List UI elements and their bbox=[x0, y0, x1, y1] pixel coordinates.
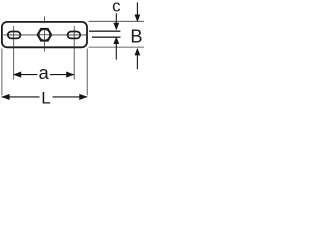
dimension L line bbox=[2, 96, 40, 98]
dimension B up arrow bbox=[135, 48, 141, 56]
background bbox=[0, 0, 144, 105]
dimension c up arrow bbox=[113, 36, 119, 44]
B extension line bottom bbox=[89, 46, 145, 48]
svg-text:c: c bbox=[112, 0, 120, 15]
dimension c lower stem bbox=[115, 44, 117, 60]
left slot bbox=[8, 32, 21, 39]
hex crosshair horizontal bbox=[37, 34, 51, 36]
B extension line top bbox=[89, 20, 145, 22]
horizontal centerline bbox=[4, 34, 88, 36]
dimension a left arrow bbox=[13, 72, 21, 78]
dimension c upper stem bbox=[115, 13, 117, 23]
svg-text:a: a bbox=[38, 62, 49, 83]
dimension B upper stem bbox=[136, 2, 138, 15]
dimension L right arrow bbox=[79, 94, 87, 100]
L extension line right bbox=[86, 48, 88, 95]
svg-text:B: B bbox=[130, 26, 142, 46]
hex crosshair vertical bbox=[43, 29, 45, 40]
dimension a right arrow bbox=[66, 72, 74, 78]
plate outline (top view) bbox=[2, 22, 87, 47]
hex centerline upper bbox=[43, 16, 45, 23]
right slot bbox=[68, 32, 81, 39]
side view bottom line bbox=[92, 36, 121, 38]
dimension B lower stem bbox=[136, 55, 138, 70]
L extension line left bbox=[1, 48, 3, 95]
hex centerline lower bbox=[43, 29, 45, 52]
right slot centerline / extension line bbox=[73, 26, 75, 80]
dimension B down arrow bbox=[135, 15, 141, 23]
dimension c down arrow bbox=[113, 23, 119, 31]
hex nut bbox=[38, 29, 52, 41]
dimension a line bbox=[14, 74, 38, 76]
left slot centerline / extension line bbox=[13, 26, 15, 80]
svg-text:L: L bbox=[41, 89, 50, 105]
side view top line bbox=[89, 30, 120, 32]
hex inner circle bbox=[39, 29, 50, 40]
dimension L left arrow bbox=[1, 94, 9, 100]
